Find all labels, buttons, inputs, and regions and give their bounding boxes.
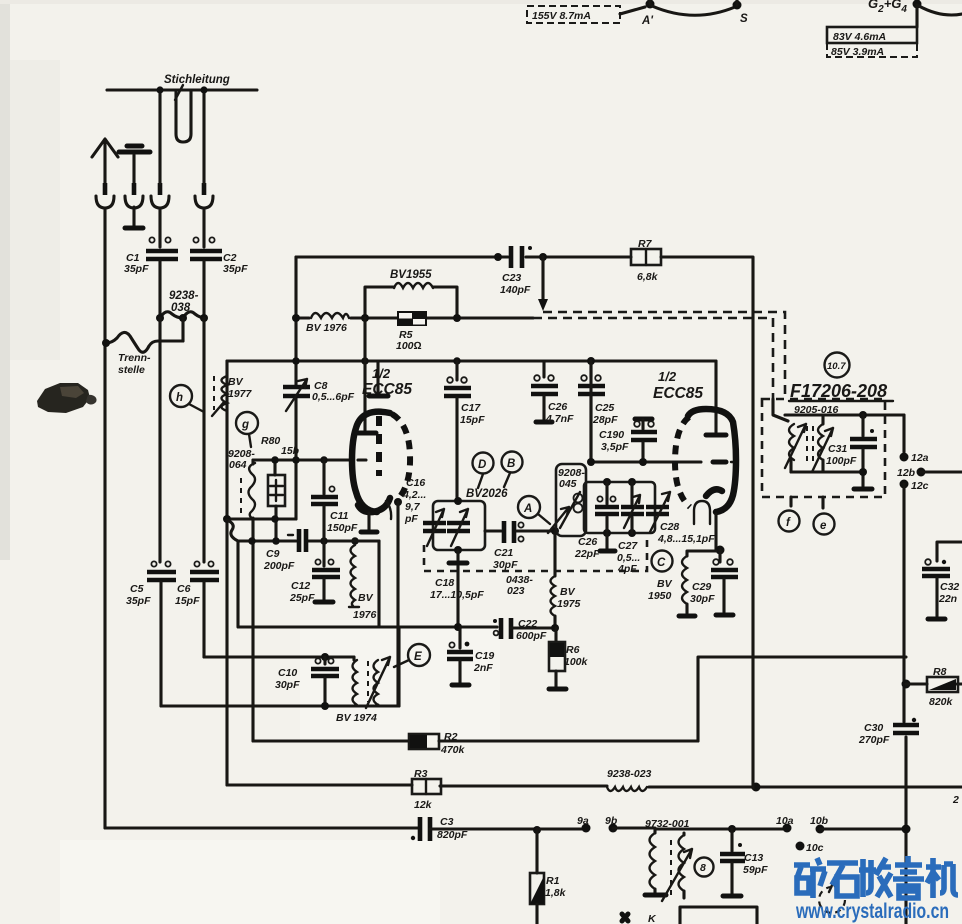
tube U1b cathode — [706, 489, 722, 496]
svg-text:D: D — [478, 459, 486, 471]
svg-text:C28: C28 — [660, 521, 679, 533]
svg-text:470k: 470k — [440, 744, 466, 756]
svg-text:E: E — [414, 651, 422, 663]
wire right main vertical — [904, 484, 906, 924]
arrow from C23 node down to dashed line — [541, 257, 544, 300]
node D — [473, 453, 494, 474]
tube U1b anode feed — [714, 361, 717, 432]
svg-text:stelle: stelle — [118, 364, 145, 376]
node top bus dots — [156, 86, 163, 93]
svg-text:17...10,5pF: 17...10,5pF — [430, 589, 484, 601]
node 12a — [902, 415, 905, 452]
tube U1a anode stem — [376, 361, 379, 394]
svg-text:BV: BV — [560, 586, 576, 598]
svg-text:30pF: 30pF — [275, 679, 300, 691]
wire inner box left edge — [225, 361, 228, 785]
svg-text:BV 1976: BV 1976 — [306, 322, 347, 334]
transformer BV1974 — [352, 657, 355, 660]
wire right vertical from R7 — [751, 312, 754, 788]
wire C9 line — [238, 539, 379, 542]
capacitor C23 — [511, 246, 522, 268]
svg-text:S: S — [740, 13, 748, 25]
resistor R7 — [631, 249, 661, 265]
svg-text:35pF: 35pF — [126, 595, 151, 607]
svg-text:C31: C31 — [828, 443, 847, 455]
tube U1b envelope dashed — [675, 417, 690, 507]
svg-text:BV 1974: BV 1974 — [336, 712, 377, 724]
antenna — [92, 139, 118, 183]
svg-text:270pF: 270pF — [858, 734, 890, 746]
svg-text:C5: C5 — [130, 583, 144, 595]
svg-text:C23: C23 — [502, 272, 521, 284]
capacitor C13 — [730, 829, 733, 851]
wire C8 branch vertical — [294, 257, 297, 385]
svg-text:15pF: 15pF — [460, 414, 485, 426]
node A' — [646, 0, 655, 9]
wire far-left bottom rail to C3 — [105, 826, 418, 829]
svg-text:150pF: 150pF — [327, 522, 358, 534]
svg-text:h: h — [176, 392, 183, 404]
wire grid line tube1 — [253, 458, 352, 461]
resistor R1 — [535, 830, 538, 873]
top measurement box 155V — [527, 6, 620, 23]
wire R2 feed vertical — [251, 460, 254, 741]
wire antenna down left rail — [103, 208, 106, 828]
wire R2 line — [253, 739, 698, 742]
node B — [502, 452, 523, 473]
coil BV1976b — [340, 539, 379, 542]
wire transformer top to 10a — [655, 827, 784, 830]
svg-text:12k: 12k — [414, 799, 433, 811]
svg-text:1976: 1976 — [353, 609, 377, 621]
svg-text:pF: pF — [404, 513, 418, 525]
svg-text:200pF: 200pF — [263, 560, 295, 572]
svg-text:C19: C19 — [475, 650, 494, 662]
ground stub below C26 — [605, 533, 608, 549]
connector plug 2 — [132, 183, 137, 195]
svg-text:2: 2 — [952, 794, 959, 806]
photo blob artifact — [37, 383, 90, 413]
variable capacitor block C18 — [433, 501, 485, 550]
capacitor C2 — [202, 208, 205, 247]
svg-text:BV: BV — [228, 376, 244, 388]
wire Trennstelle wavy — [106, 332, 183, 352]
svg-text:BV2026: BV2026 — [466, 488, 508, 500]
wire R3 / main bus y787 — [227, 785, 962, 787]
capacitor C19 — [458, 627, 461, 648]
svg-text:10b: 10b — [810, 815, 829, 827]
svg-text:100k: 100k — [564, 656, 589, 668]
IF transformer dashed box — [762, 399, 885, 497]
wire C5 branch — [158, 318, 161, 562]
capacitor C5 — [151, 561, 156, 566]
svg-text:25pF: 25pF — [289, 592, 315, 604]
svg-text:22pF: 22pF — [574, 548, 600, 560]
wire box bottom segment from squiggle — [238, 541, 497, 627]
char shou — [859, 858, 891, 897]
capacitor C31 — [785, 413, 904, 416]
char yin — [893, 856, 924, 898]
svg-text:C26: C26 — [548, 401, 567, 413]
svg-text:C190: C190 — [599, 429, 624, 441]
wire A' to S curve — [652, 6, 735, 15]
capacitor C27 — [630, 482, 633, 533]
svg-text:R80: R80 — [261, 435, 280, 447]
svg-text:R2: R2 — [444, 731, 458, 743]
svg-text:10a: 10a — [776, 815, 794, 827]
svg-text:140pF: 140pF — [500, 284, 531, 296]
capacitor C12 — [322, 541, 325, 566]
capacitor C22 on box bottom line — [501, 618, 511, 639]
wire C9-line corner down to box bottom — [377, 541, 380, 627]
node 10b wire — [816, 825, 825, 834]
wire 9a — [537, 827, 583, 830]
capacitor C26 22pF — [605, 482, 608, 533]
capacitor C10 — [321, 653, 329, 661]
svg-text:4pF: 4pF — [617, 563, 637, 575]
svg-text:C11: C11 — [330, 510, 349, 522]
char kuang — [794, 858, 826, 898]
node 8 — [695, 858, 714, 877]
svg-text:Stichleitung: Stichleitung — [164, 74, 230, 86]
partial marks at bottom edge — [622, 914, 628, 921]
svg-text:C13: C13 — [744, 852, 763, 864]
capacitor C3 — [420, 817, 430, 841]
wire C5 rail to C10 bottom — [161, 704, 399, 707]
svg-text:1,8k: 1,8k — [545, 887, 567, 899]
node E — [408, 644, 430, 666]
svg-text:R3: R3 — [414, 768, 428, 780]
wire T1 bottoms — [791, 470, 863, 473]
node h — [170, 385, 192, 407]
svg-text:C30: C30 — [864, 722, 883, 734]
node 10.7 — [825, 353, 850, 378]
switch box 9208-045 — [556, 464, 586, 536]
switch arrow at A — [548, 507, 569, 533]
trimmer capacitor C8 — [283, 387, 310, 396]
svg-text:R7: R7 — [638, 238, 653, 250]
svg-text:155V 8.7mA: 155V 8.7mA — [532, 10, 591, 22]
svg-text:Trenn-: Trenn- — [118, 352, 151, 364]
svg-text:ECC85: ECC85 — [653, 385, 703, 402]
transformer 9732-001 — [650, 833, 656, 889]
wire top bus — [107, 88, 257, 91]
node 10a — [783, 824, 792, 833]
coil T1 primary — [773, 399, 788, 421]
svg-text:820pF: 820pF — [437, 829, 468, 841]
svg-text:R6: R6 — [566, 644, 580, 656]
wire plug3 up — [158, 90, 161, 183]
svg-text:820k: 820k — [929, 696, 954, 708]
dashed circle detail bottom — [819, 887, 845, 913]
svg-text:A: A — [523, 503, 532, 515]
svg-text:100pF: 100pF — [826, 455, 857, 467]
tube U1a grid dashed — [376, 416, 382, 476]
svg-text:C32: C32 — [940, 581, 959, 593]
svg-text:BV1955: BV1955 — [390, 269, 432, 281]
wire y318 main with BV1976 coil and R5 — [296, 316, 533, 319]
tube U1a cathode — [358, 498, 390, 512]
node f — [789, 497, 792, 506]
svg-text:35pF: 35pF — [124, 263, 149, 275]
resistor R80 — [268, 475, 285, 506]
svg-text:8: 8 — [700, 862, 706, 874]
capacitor C28 — [646, 507, 669, 514]
svg-text:C29: C29 — [692, 581, 711, 593]
svg-text:C22: C22 — [518, 618, 537, 630]
svg-text:C16: C16 — [406, 477, 425, 489]
svg-text:C17: C17 — [461, 402, 481, 414]
coil 9238-023 — [607, 787, 647, 791]
coil T1 core — [807, 426, 813, 466]
connector plug 3 — [158, 183, 163, 195]
svg-text:12a: 12a — [911, 452, 929, 464]
svg-text:B: B — [507, 458, 515, 470]
svg-text:9a: 9a — [577, 815, 589, 827]
measurement box 83V — [827, 27, 917, 43]
svg-text:R1: R1 — [546, 875, 560, 887]
svg-text:4,2...: 4,2... — [402, 489, 426, 501]
capacitor C26 4.7nF — [542, 361, 545, 377]
svg-text:C18: C18 — [435, 577, 454, 589]
svg-text:9238-: 9238- — [169, 290, 199, 302]
svg-text:100Ω: 100Ω — [396, 340, 422, 352]
svg-text:4,8...15,1pF: 4,8...15,1pF — [657, 533, 715, 545]
measurement box 85V — [827, 43, 917, 57]
svg-text:045: 045 — [559, 478, 577, 490]
char shi — [827, 863, 858, 896]
wire cathode rail via transformer to box bottom — [397, 627, 400, 706]
svg-text:4,7nF: 4,7nF — [545, 413, 574, 425]
svg-text:C3: C3 — [440, 816, 454, 828]
bandfilter box C26 C27 — [584, 482, 655, 533]
wire C6 rail to C10 top — [204, 655, 354, 658]
svg-text:12c: 12c — [911, 480, 929, 492]
wire top line y257 — [296, 255, 508, 258]
svg-text:1975: 1975 — [557, 598, 581, 610]
wire 9b to transformer — [609, 824, 618, 833]
flexible squiggle to box bottom line — [227, 520, 238, 541]
svg-text:e: e — [820, 520, 827, 532]
svg-text:R8: R8 — [933, 666, 947, 678]
coil T1 secondary — [821, 415, 824, 424]
wire tube1 cathode down — [394, 498, 402, 506]
svg-text:1977: 1977 — [228, 388, 253, 400]
coil 9208-064 on grid feed — [240, 478, 242, 516]
svg-text:C21: C21 — [494, 547, 513, 559]
capacitor C32 — [937, 542, 962, 561]
wire step up from R2 line — [698, 657, 906, 741]
svg-text:59pF: 59pF — [743, 864, 768, 876]
svg-text:9238-023: 9238-023 — [607, 768, 652, 780]
svg-text:1/2: 1/2 — [372, 366, 391, 381]
svg-text:10c: 10c — [806, 842, 824, 854]
node 12b — [917, 468, 926, 477]
wire label tick — [175, 85, 183, 100]
svg-text:1950: 1950 — [648, 590, 672, 602]
node g — [236, 412, 258, 434]
svg-text:BV: BV — [657, 578, 673, 590]
capacitor C11 — [322, 460, 325, 494]
node e — [821, 497, 824, 508]
node A — [518, 496, 540, 518]
svg-text:064: 064 — [229, 459, 247, 471]
dashed continuation of y318 line — [533, 317, 773, 320]
svg-text:9b: 9b — [605, 815, 618, 827]
svg-text:30pF: 30pF — [690, 593, 715, 605]
svg-text:C12: C12 — [291, 580, 310, 592]
wire Trennstelle tap — [181, 318, 184, 341]
capacitor C9 — [299, 529, 306, 552]
svg-text:10.7: 10.7 — [827, 361, 846, 372]
svg-text:9,7: 9,7 — [405, 501, 421, 513]
dashed link from C18 — [424, 538, 647, 571]
node G2 curve — [913, 0, 922, 9]
svg-text:28pF: 28pF — [592, 414, 618, 426]
svg-text:2nF: 2nF — [473, 662, 493, 674]
svg-text:023: 023 — [507, 585, 525, 597]
node C — [652, 551, 673, 572]
dashed line B vertical — [772, 318, 775, 399]
node S — [733, 1, 742, 10]
coil BV1977 — [222, 376, 228, 411]
partial box at bottom — [680, 907, 757, 924]
dashed line A y312 — [543, 312, 785, 399]
resistor R3 — [412, 779, 441, 794]
BV1955 loop — [365, 287, 457, 318]
coil BV1975 — [553, 531, 556, 576]
svg-text:3,5pF: 3,5pF — [601, 441, 629, 453]
wire stage box top line y361 — [227, 359, 716, 362]
svg-text:C: C — [657, 557, 666, 569]
resistor R2 — [409, 734, 439, 749]
capacitor C21 — [485, 529, 501, 532]
wire grid feed H y519 — [227, 517, 296, 520]
connector plug 4 — [202, 183, 207, 195]
resistor R5 — [397, 311, 427, 326]
tube U1a envelope dashed — [392, 414, 410, 498]
capacitor C29 — [718, 550, 721, 562]
svg-text:BV: BV — [358, 592, 374, 604]
svg-text:C10: C10 — [278, 667, 297, 679]
wire plug4 up — [202, 90, 205, 183]
capacitor C190 — [635, 417, 652, 422]
svg-text:A': A' — [641, 15, 654, 27]
wire grid line tube2 — [591, 361, 701, 462]
node 10c — [796, 842, 805, 851]
svg-text:12b: 12b — [897, 467, 916, 479]
watermark big characters — [794, 856, 958, 898]
svg-text:g: g — [241, 419, 249, 431]
capacitor C17 — [455, 361, 458, 380]
svg-text:C9: C9 — [266, 548, 280, 560]
connector plug 1 — [103, 183, 108, 195]
svg-text:83V 4.6mA: 83V 4.6mA — [833, 31, 886, 43]
coil BV1950 — [687, 551, 716, 556]
svg-text:www.crystalradio.cn: www.crystalradio.cn — [795, 900, 949, 923]
svg-text:C26: C26 — [578, 536, 597, 548]
capacitor C6 — [202, 318, 205, 562]
svg-text:C27: C27 — [618, 540, 638, 552]
svg-text:600pF: 600pF — [516, 630, 547, 642]
svg-text:35pF: 35pF — [223, 263, 248, 275]
tube U1a envelope solid — [352, 412, 390, 512]
char ji — [926, 858, 958, 898]
tube U1b envelope solid — [688, 409, 736, 512]
flexible link 9238-038 — [160, 312, 206, 318]
capacitor C1 — [158, 208, 161, 247]
capacitor C25 — [589, 361, 592, 377]
svg-text:85V 3.9mA: 85V 3.9mA — [831, 46, 884, 58]
svg-text:15pF: 15pF — [175, 595, 200, 607]
resistor R6 — [554, 628, 557, 687]
node 12c — [900, 480, 909, 489]
capacitor C30 — [912, 718, 916, 722]
svg-text:C25: C25 — [595, 402, 614, 414]
wire stub loop Stichleitung — [176, 90, 191, 142]
resistor R8 — [902, 680, 911, 689]
svg-text:30pF: 30pF — [493, 559, 518, 571]
svg-text:6,8k: 6,8k — [637, 271, 659, 283]
svg-text:1/2: 1/2 — [658, 369, 677, 384]
tube U1a inner plate — [363, 318, 366, 430]
svg-text:038: 038 — [171, 302, 191, 314]
svg-text:22n: 22n — [938, 593, 957, 605]
svg-text:0,5...6pF: 0,5...6pF — [312, 391, 355, 403]
svg-text:C6: C6 — [177, 583, 191, 595]
ground electrode symbol — [119, 150, 150, 155]
